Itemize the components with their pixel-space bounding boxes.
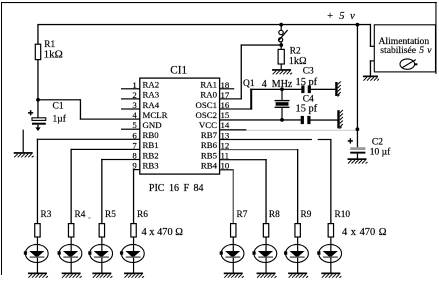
LED D3 xyxy=(88,237,112,277)
wire OSC1 line to C3 xyxy=(250,89,302,90)
svg-text:R4: R4 xyxy=(75,210,86,220)
capacitor C4 xyxy=(296,95,338,125)
svg-text:11: 11 xyxy=(221,151,229,161)
wire rail to alim box top xyxy=(357,24,371,25)
ground (left, near GND pin) xyxy=(14,130,34,158)
ground under C2 xyxy=(348,158,368,163)
node R1/C1/MCLR junction xyxy=(36,98,40,102)
svg-text:MCLR: MCLR xyxy=(143,110,168,120)
resistor R1 xyxy=(35,25,62,101)
svg-text:13: 13 xyxy=(221,130,230,140)
LED D1 xyxy=(24,237,48,277)
node top rail switch junction xyxy=(279,23,283,27)
svg-text:C1: C1 xyxy=(53,102,64,112)
resistor R9 xyxy=(295,210,312,237)
svg-text:15 pf: 15 pf xyxy=(296,77,318,88)
LED D5 xyxy=(220,237,244,277)
svg-text:Q1: Q1 xyxy=(243,79,255,89)
svg-text:15: 15 xyxy=(221,110,230,120)
IC right pin labels xyxy=(195,80,217,171)
wire pin2 stub xyxy=(121,98,140,99)
node +5v rail right corner xyxy=(356,23,360,27)
svg-text:RB0: RB0 xyxy=(143,130,160,140)
ground under alim box xyxy=(363,76,379,81)
border frame top xyxy=(1,2,437,3)
resistor R3 xyxy=(35,210,52,237)
wire alim box lower terminal to ground xyxy=(370,60,375,61)
LED D4 xyxy=(120,237,144,277)
svg-text:R7: R7 xyxy=(237,210,248,220)
svg-text:PIC 16 F 84: PIC 16 F 84 xyxy=(149,183,204,194)
svg-text:GND: GND xyxy=(143,120,162,130)
svg-text:OSC2: OSC2 xyxy=(195,110,217,120)
wire pin4 MCLR xyxy=(80,119,140,120)
svg-text:CI1: CI1 xyxy=(170,64,187,76)
svg-text:10: 10 xyxy=(221,161,230,171)
svg-text:RB3: RB3 xyxy=(143,160,160,170)
alimentation box xyxy=(374,25,435,72)
svg-text:4 x 470 Ω: 4 x 470 Ω xyxy=(342,227,387,238)
ground under R2 xyxy=(272,69,292,74)
svg-text:R3: R3 xyxy=(41,210,52,220)
svg-text:RA1: RA1 xyxy=(200,80,217,90)
LED D6 xyxy=(252,237,276,277)
node switch/R2/RA0 junction xyxy=(279,43,283,47)
resistor R5 xyxy=(99,210,116,237)
border frame left xyxy=(1,2,2,275)
capacitor C3 xyxy=(296,66,336,93)
svg-text:RB2: RB2 xyxy=(143,150,159,160)
crystal Q1 4MHz xyxy=(243,79,293,122)
svg-text:R5: R5 xyxy=(105,210,116,220)
resistor R7 xyxy=(231,210,248,237)
svg-text:1kΩ: 1kΩ xyxy=(44,49,63,61)
svg-text:4 MHz: 4 MHz xyxy=(262,79,293,90)
svg-text:RB5: RB5 xyxy=(201,150,218,160)
svg-text:RA2: RA2 xyxy=(143,80,160,90)
ground C4 (vertical bar) xyxy=(337,110,343,129)
svg-text:OSC1: OSC1 xyxy=(195,100,217,110)
resistor R8 xyxy=(263,210,280,237)
svg-text:C2: C2 xyxy=(372,138,383,148)
wire pin17 RA0 to switch xyxy=(220,98,242,99)
wire pin18 RA1 stub xyxy=(220,88,235,89)
svg-text:12: 12 xyxy=(221,140,230,150)
resistor R10 xyxy=(328,210,387,238)
resistor R4 xyxy=(68,210,90,237)
wire pin10 RB4 to R7 xyxy=(220,169,234,170)
wire pin12 RB6 to R9 xyxy=(220,149,299,150)
svg-text:RA3: RA3 xyxy=(143,90,160,100)
svg-text:+ 5 v: + 5 v xyxy=(327,11,356,22)
LED D2 xyxy=(58,237,82,277)
IC left pin labels xyxy=(143,80,168,171)
IC right pin numbers xyxy=(221,80,230,171)
svg-text:R10: R10 xyxy=(335,210,351,220)
wire junction to MCLR xyxy=(38,99,81,100)
svg-text:1µf: 1µf xyxy=(53,114,67,125)
svg-text:15 pf: 15 pf xyxy=(296,103,318,114)
IC left pin numbers xyxy=(132,80,137,171)
svg-text:RA0: RA0 xyxy=(200,90,217,100)
svg-text:10 µf: 10 µf xyxy=(370,147,391,158)
capacitor C2 xyxy=(348,138,391,159)
border frame right xyxy=(435,2,436,74)
wire pin11 RB5 to R8 xyxy=(220,159,267,160)
wire pin9 RB3 to R6 xyxy=(133,169,140,170)
wire pin16 OSC1 jog up to crystal line xyxy=(220,108,253,109)
wire pin3 stub xyxy=(121,108,140,109)
node VCC rail junction xyxy=(356,127,360,131)
ground C3 (vertical bar) xyxy=(335,82,341,97)
wire pin8 RB2 to R5 xyxy=(101,159,140,160)
wire pin6 RB0 to R3 xyxy=(37,139,140,140)
svg-text:C3: C3 xyxy=(303,66,314,76)
wire pin5 stub xyxy=(121,129,140,130)
LED D7 xyxy=(284,237,308,277)
svg-text:R6: R6 xyxy=(137,210,148,220)
svg-text:4 x 470 Ω: 4 x 470 Ω xyxy=(142,227,184,238)
svg-text:VCC: VCC xyxy=(199,120,217,130)
op-amp CI1 IC body PIC16F84 xyxy=(140,64,220,194)
wire pin15 OSC2 to C4 xyxy=(220,119,301,120)
LED D8 xyxy=(317,237,341,277)
svg-text:RB1: RB1 xyxy=(143,140,159,150)
wire right rail vertical xyxy=(357,24,358,147)
svg-text:R8: R8 xyxy=(269,210,280,220)
capacitor C1 xyxy=(28,100,67,131)
resistor R2 xyxy=(278,45,307,69)
wire pin14 VCC to rail xyxy=(220,129,247,130)
svg-text:RB4: RB4 xyxy=(201,160,218,170)
wire pin13 RB7 to R10 (with gap) xyxy=(220,139,312,140)
svg-text:1kΩ: 1kΩ xyxy=(289,56,307,67)
resistor R6 xyxy=(131,210,183,238)
svg-text:RB6: RB6 xyxy=(201,140,218,150)
svg-text:14: 14 xyxy=(221,120,230,130)
wire pin7 RB1 to R4 xyxy=(71,149,140,150)
svg-text:RA4: RA4 xyxy=(143,100,160,110)
switch S1 xyxy=(279,25,288,45)
wire pin1 stub xyxy=(121,88,140,89)
svg-text:RB7: RB7 xyxy=(201,130,218,140)
svg-text:stabilisée 5 v: stabilisée 5 v xyxy=(380,45,432,56)
wire +5V top rail xyxy=(37,24,358,25)
svg-text:R9: R9 xyxy=(301,210,312,220)
